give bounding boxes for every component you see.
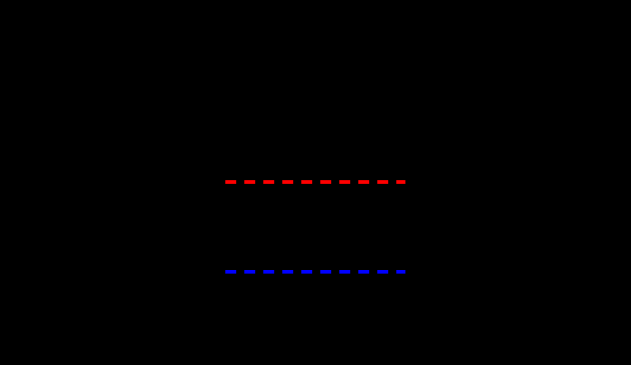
blue dashed line (lower energy level) <box>225 270 405 274</box>
red dashed line (upper energy level) <box>225 180 405 184</box>
